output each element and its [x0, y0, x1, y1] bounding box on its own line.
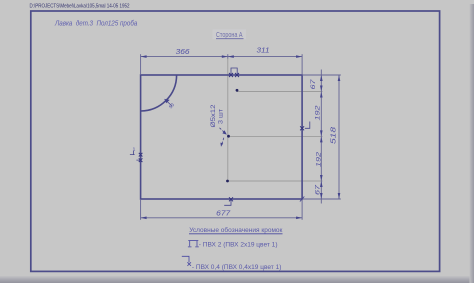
svg-text:67: 67: [315, 184, 322, 195]
svg-text:Лавка дет.3 Пол125 проба: Лавка дет.3 Пол125 проба: [54, 18, 137, 27]
svg-text:192: 192: [316, 151, 323, 167]
svg-text:192: 192: [315, 105, 322, 121]
svg-text:3 шт: 3 шт: [218, 109, 225, 124]
svg-text:Ø5х12: Ø5х12: [210, 104, 217, 128]
svg-text:518: 518: [331, 127, 338, 144]
svg-text:Условные обозначения кромок: Условные обозначения кромок: [189, 226, 282, 234]
svg-text:311: 311: [257, 48, 270, 55]
svg-text:- ПВХ 2 (ПВХ 2х19 цвет 1): - ПВХ 2 (ПВХ 2х19 цвет 1): [199, 242, 278, 249]
svg-text:D:\PROJECTS\Mebel\Lavka\105,5m: D:\PROJECTS\Mebel\Lavka\105,5mal 14-05 1…: [30, 4, 130, 10]
svg-text:- ПВХ 0,4 (ПВХ 0,4х19 цвет 1): - ПВХ 0,4 (ПВХ 0,4х19 цвет 1): [192, 264, 282, 271]
svg-text:67: 67: [310, 79, 317, 90]
svg-text:Сторона А: Сторона А: [216, 30, 243, 39]
svg-text:1: 1: [133, 147, 136, 153]
svg-text:366: 366: [176, 49, 190, 56]
svg-text:677: 677: [216, 210, 231, 217]
